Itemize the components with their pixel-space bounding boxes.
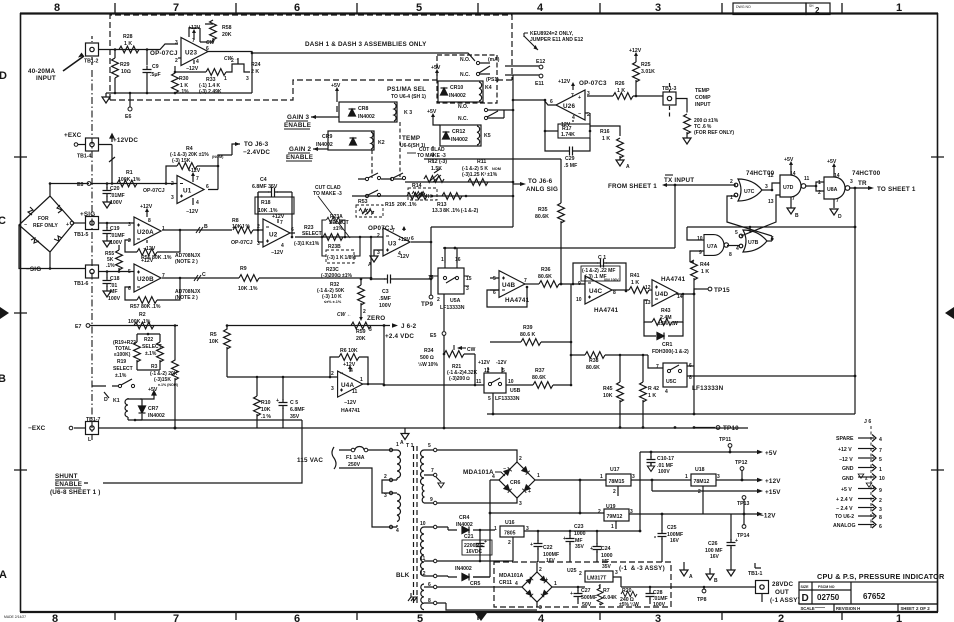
- svg-text:500 Ω: 500 Ω: [420, 355, 434, 361]
- fuse F1: [339, 447, 392, 468]
- svg-text:TP8: TP8: [697, 597, 707, 603]
- svg-text:2: 2: [879, 498, 882, 504]
- TP13: [737, 496, 750, 514]
- svg-text:5: 5: [428, 443, 431, 449]
- svg-text:GND: GND: [842, 476, 854, 482]
- svg-text:7: 7: [280, 220, 283, 226]
- svg-text:10: 10: [420, 521, 426, 527]
- svg-text:TP14: TP14: [737, 533, 750, 539]
- terminal TB1-1: [671, 563, 800, 604]
- svg-text:7: 7: [524, 278, 527, 284]
- U3 feedback loop with C3: [370, 227, 433, 295]
- svg-text:3: 3: [257, 241, 260, 247]
- ground U3 pin3: [368, 250, 383, 268]
- svg-text:TO MAKE -3: TO MAKE -3: [313, 191, 342, 197]
- svg-text:6: 6: [294, 2, 300, 14]
- svg-text:+12 V: +12 V: [838, 447, 852, 453]
- svg-text:SH: SH: [809, 4, 814, 8]
- svg-text:C3: C3: [382, 289, 389, 295]
- svg-text:+: +: [590, 546, 593, 552]
- +5V K4: [431, 65, 441, 81]
- svg-text:U7B: U7B: [748, 240, 759, 246]
- svg-text:+: +: [578, 95, 581, 101]
- ground: [102, 93, 110, 103]
- svg-text:CR10: CR10: [450, 85, 463, 91]
- svg-text:C29: C29: [565, 156, 575, 162]
- transformer T1 primary: [384, 442, 414, 534]
- lower 115VAC wire: [339, 468, 392, 527]
- svg-text:TB1-1: TB1-1: [748, 571, 763, 577]
- resistor R7: [597, 584, 617, 605]
- wire latch bus y227: [687, 227, 855, 240]
- wire U2 out to U3: [290, 233, 383, 237]
- svg-text:U7D: U7D: [783, 185, 794, 191]
- -12V supply U3: [397, 254, 410, 260]
- svg-text:+5V: +5V: [765, 450, 778, 457]
- svg-text:(-3)1 K±1%: (-3)1 K±1%: [294, 241, 320, 247]
- svg-text:1: 1: [611, 524, 614, 530]
- svg-text:79M12: 79M12: [607, 514, 623, 520]
- svg-text:8: 8: [729, 252, 732, 258]
- svg-text:E5: E5: [430, 333, 436, 339]
- +12V supply U3: [398, 226, 411, 243]
- svg-text:11: 11: [420, 556, 426, 562]
- +12V -12V U5B: [478, 360, 507, 366]
- K4 contacts: [460, 57, 500, 83]
- wire TX input: [667, 184, 736, 186]
- svg-text:ZERO: ZERO: [367, 315, 385, 322]
- svg-text:IN4002: IN4002: [449, 93, 466, 99]
- fold marks: [0, 307, 9, 319]
- svg-text:C4: C4: [260, 177, 267, 183]
- svg-text:J 6-2: J 6-2: [401, 323, 417, 330]
- svg-text:8: 8: [54, 2, 60, 14]
- svg-text:3: 3: [369, 327, 372, 333]
- resistor 200 ohm: [676, 99, 734, 139]
- zone numerals top: [54, 2, 902, 14]
- resistor R45: [603, 355, 623, 427]
- svg-text:11: 11: [804, 176, 810, 182]
- svg-text:TP15: TP15: [714, 287, 730, 294]
- svg-text:−: −: [503, 466, 506, 472]
- resistor R25: [633, 58, 655, 96]
- wire U4A input row: [227, 376, 337, 378]
- J6 pin -2.4V: [836, 504, 882, 513]
- svg-text:8: 8: [428, 598, 431, 604]
- svg-text:7: 7: [173, 2, 179, 14]
- svg-text:E12: E12: [536, 59, 545, 65]
- svg-text:OP-07CJ: OP-07CJ: [150, 50, 178, 57]
- svg-text:TP11: TP11: [719, 437, 731, 443]
- svg-text:U4D: U4D: [655, 291, 668, 298]
- svg-text:50V: 50V: [582, 602, 592, 608]
- svg-text:ANLG SIG: ANLG SIG: [526, 186, 558, 193]
- svg-text:DASH 1 & DASH 3 ASSEMBLIES ONL: DASH 1 & DASH 3 ASSEMBLIES ONLY: [305, 41, 427, 48]
- gate U7D: [780, 171, 810, 202]
- svg-text:3: 3: [466, 286, 469, 292]
- svg-text:R5: R5: [210, 332, 217, 338]
- op-amp U4C: [576, 276, 616, 304]
- -12V supply U20A: [143, 240, 156, 252]
- svg-text:2: 2: [363, 309, 366, 315]
- svg-text:CR5: CR5: [470, 581, 480, 587]
- svg-text:3: 3: [879, 507, 882, 513]
- svg-text:C 1: C 1: [598, 255, 606, 261]
- bridge minus drop: [473, 480, 604, 577]
- ground B U7D: [787, 197, 799, 219]
- pot R24: [224, 56, 261, 82]
- label FROM SHEET 1 / TX INPUT: [608, 175, 694, 190]
- svg-text:11: 11: [352, 389, 358, 395]
- terminal TB1-3: [662, 83, 677, 118]
- junction node: [114, 48, 117, 51]
- dashed control lines: [372, 122, 433, 178]
- svg-text:+5V: +5V: [427, 109, 437, 115]
- +12V rail: [716, 478, 781, 485]
- resistor R53 dashed: [356, 199, 383, 217]
- U4B input wires: [490, 278, 499, 290]
- resistor R36: [538, 267, 585, 287]
- svg-text:+: +: [270, 185, 273, 191]
- resistor R23: [294, 225, 343, 247]
- IC U5B switch: [476, 367, 521, 415]
- +12V supply U1: [188, 168, 201, 182]
- svg-text:1 K: 1 K: [602, 136, 610, 142]
- svg-text:IN4002: IN4002: [316, 142, 333, 148]
- wire U7A out to U7B: [727, 245, 739, 247]
- node E7: [75, 324, 178, 330]
- label CUT CLAD TO MAKE -3: [407, 147, 446, 159]
- svg-text:2: 2: [128, 238, 131, 244]
- bridge FOR REF ONLY: [19, 196, 74, 252]
- capacitor C4: [252, 177, 292, 197]
- transformer T1 secondary B: [420, 521, 437, 578]
- svg-text:12: 12: [420, 571, 426, 577]
- svg-text:8: 8: [148, 218, 151, 224]
- bridge lower wires: [19, 225, 50, 269]
- svg-text:9: 9: [879, 488, 882, 494]
- svg-text:N.O.: N.O.: [458, 104, 469, 110]
- terminal TB1-5: [70, 211, 98, 238]
- svg-text:U20B: U20B: [137, 276, 154, 283]
- svg-text:K 3: K 3: [404, 110, 412, 116]
- label TEMP U6-6: [400, 135, 426, 149]
- relay K5: [440, 125, 491, 146]
- svg-text:E7: E7: [75, 324, 81, 330]
- ground A tap on bus: [400, 428, 409, 447]
- svg-text:TEMP: TEMP: [402, 135, 420, 142]
- svg-text:1: 1: [162, 226, 165, 232]
- label MDA101A CR11: [499, 573, 523, 586]
- svg-text:SHEET: SHEET: [901, 606, 915, 611]
- svg-text:R18: R18: [261, 200, 271, 206]
- svg-text:E11: E11: [535, 81, 544, 87]
- gate U7C: [730, 173, 774, 205]
- -12V supply U4A: [341, 400, 360, 414]
- op-amp U26 (left pointing): [550, 90, 590, 121]
- wire U5C pin7: [648, 355, 663, 368]
- svg-text:MF: MF: [110, 289, 118, 295]
- svg-text:D: D: [802, 593, 809, 604]
- +5V U7D: [784, 157, 794, 175]
- svg-text:.1%: .1%: [106, 263, 115, 269]
- svg-text:100V: 100V: [110, 240, 123, 246]
- transformer T1 secondary C: [421, 582, 437, 610]
- svg-text:6: 6: [294, 613, 300, 622]
- svg-text:R23B: R23B: [328, 244, 341, 250]
- gate U8A: [818, 173, 853, 204]
- svg-text:+5V: +5V: [431, 65, 441, 71]
- label cut clad 2: [313, 185, 350, 238]
- svg-text:TP13: TP13: [737, 501, 750, 507]
- ground bus of U23 stage: [106, 92, 252, 94]
- wire LM317 out: [573, 577, 671, 587]
- svg-text:3: 3: [717, 474, 720, 480]
- svg-text:R53: R53: [358, 199, 368, 205]
- diode CR5: [437, 566, 490, 587]
- capacitor C5: [276, 377, 305, 428]
- svg-text:+12V: +12V: [629, 48, 642, 54]
- relay K4: [438, 81, 492, 102]
- svg-text:C18: C18: [110, 276, 120, 282]
- TO J6-6 arrow: [513, 178, 558, 193]
- svg-text:.1 %: .1 %: [261, 414, 271, 420]
- svg-text:4: 4: [396, 528, 399, 534]
- svg-text:(-3) 15K: (-3) 15K: [172, 158, 191, 164]
- svg-text:CW: CW: [467, 347, 476, 353]
- svg-text:C 5: C 5: [290, 400, 298, 406]
- svg-text:+12V: +12V: [141, 258, 154, 264]
- svg-text:U18: U18: [695, 467, 705, 473]
- svg-text:6: 6: [411, 236, 414, 242]
- svg-text:U2: U2: [269, 232, 278, 239]
- zone numerals bottom: [52, 613, 902, 622]
- resistor R23B dashed: [322, 237, 360, 263]
- svg-text:− 2.4 V: − 2.4 V: [836, 506, 853, 512]
- regulator U25 LM317T: [567, 568, 618, 591]
- svg-text:ENABLE: ENABLE: [284, 122, 311, 129]
- svg-text:FDH300(-1 &-2): FDH300(-1 &-2): [652, 349, 689, 355]
- svg-text:.5μF: .5μF: [150, 72, 161, 78]
- svg-text:6: 6: [879, 524, 882, 530]
- svg-text:7: 7: [656, 364, 659, 370]
- svg-text:D: D: [0, 70, 7, 82]
- resistor R30: [172, 66, 190, 95]
- svg-text:1: 1: [494, 526, 497, 532]
- svg-text:1 K: 1 K: [617, 88, 625, 94]
- svg-text:−12 V: −12 V: [839, 457, 853, 463]
- relay K3: [333, 102, 412, 122]
- terminal TB1-2: [84, 36, 99, 65]
- resistor R20: [619, 588, 639, 608]
- svg-text:7: 7: [571, 93, 574, 99]
- svg-text:≤100K): ≤100K): [114, 352, 131, 358]
- resistor R8: [232, 218, 253, 233]
- svg-text:(-3) 2.49K: (-3) 2.49K: [199, 89, 222, 95]
- svg-text:8: 8: [52, 613, 58, 622]
- svg-text:B: B: [714, 578, 718, 584]
- svg-text:3: 3: [615, 570, 618, 576]
- svg-text:1: 1: [896, 2, 902, 14]
- resistor R1: [117, 170, 141, 187]
- svg-text:R26: R26: [615, 81, 625, 87]
- capacitor C10-17: [647, 452, 675, 475]
- svg-text:TB1-6: TB1-6: [74, 281, 89, 287]
- resistor R19: [113, 334, 140, 379]
- wire -SIG: [99, 271, 135, 273]
- TP12: [735, 460, 748, 480]
- -12V rail: [629, 512, 776, 520]
- svg-text:3: 3: [377, 250, 380, 256]
- svg-text:CR11: CR11: [499, 580, 512, 586]
- svg-text:3: 3: [655, 613, 661, 622]
- dashed K4 enclosure: [437, 55, 497, 103]
- common rail tap11: [437, 560, 513, 562]
- resistor R32: [317, 279, 364, 305]
- TP8: [697, 586, 707, 603]
- svg-text:CR7: CR7: [148, 406, 158, 412]
- svg-text:TP10: TP10: [723, 425, 739, 432]
- svg-text:C: C: [202, 272, 206, 278]
- svg-text:CR8: CR8: [358, 106, 368, 112]
- svg-text:TB1-5: TB1-5: [74, 232, 89, 238]
- svg-text:13: 13: [768, 199, 774, 205]
- svg-text:12: 12: [645, 285, 651, 291]
- svg-text:16V: 16V: [710, 554, 720, 560]
- svg-text:K1: K1: [113, 398, 120, 404]
- svg-text:4: 4: [538, 613, 545, 622]
- chassis ground T1: [408, 593, 418, 601]
- op-amp U3: [377, 228, 414, 257]
- svg-text:4: 4: [537, 2, 544, 14]
- svg-text:JUMPER E11 AND E12: JUMPER E11 AND E12: [530, 37, 583, 43]
- svg-text:115 VAC: 115 VAC: [297, 457, 323, 464]
- svg-text:+: +: [276, 398, 279, 404]
- svg-text:1: 1: [879, 467, 882, 473]
- J6 pin +5V: [841, 485, 882, 494]
- wire U17 out: [631, 479, 691, 481]
- svg-text:(U6-8 SHEET 1 ): (U6-8 SHEET 1 ): [50, 489, 101, 496]
- svg-text:15: 15: [466, 276, 472, 282]
- svg-text:1: 1: [441, 257, 444, 263]
- svg-text:NOM: NOM: [492, 167, 501, 171]
- +5V to K1: [140, 387, 158, 399]
- svg-text:16V: 16V: [670, 538, 680, 544]
- svg-text:250V: 250V: [348, 462, 361, 468]
- svg-text:R16: R16: [600, 129, 610, 135]
- svg-text:+: +: [545, 577, 548, 583]
- svg-text:9: 9: [430, 497, 433, 503]
- switch G2: [358, 173, 381, 181]
- svg-text:C22: C22: [543, 545, 553, 551]
- svg-text:U20A: U20A: [137, 229, 154, 236]
- capacitor C25: [654, 514, 683, 562]
- +12V R25: [629, 48, 642, 58]
- label PS1/MA SEL: [387, 86, 426, 100]
- op-amp U4B: [493, 271, 527, 298]
- svg-text:IN4002: IN4002: [455, 566, 472, 572]
- svg-text:+: +: [66, 222, 69, 228]
- svg-text:U1: U1: [183, 188, 192, 195]
- svg-text:2: 2: [698, 489, 701, 495]
- svg-text:−12V: −12V: [271, 250, 284, 256]
- svg-text:+: +: [563, 536, 566, 542]
- svg-text:4: 4: [492, 474, 495, 480]
- svg-text:U5A: U5A: [450, 298, 461, 304]
- svg-text:R29: R29: [120, 62, 130, 68]
- svg-text:67652: 67652: [863, 592, 886, 601]
- svg-text:10: 10: [697, 236, 703, 242]
- label 40-20MA INPUT: [28, 53, 84, 83]
- svg-text:CR6: CR6: [510, 480, 520, 486]
- svg-text:20K .1%: 20K .1%: [397, 202, 417, 208]
- svg-text:−EXC: −EXC: [28, 425, 46, 432]
- wire tap8: [437, 603, 537, 610]
- svg-text:R25: R25: [641, 62, 651, 68]
- svg-text:35V: 35V: [575, 544, 585, 550]
- svg-text:16VDC: 16VDC: [466, 549, 483, 555]
- svg-text:(-1 & -3 ASSY): (-1 & -3 ASSY): [619, 565, 665, 572]
- svg-text:K5: K5: [484, 133, 491, 139]
- svg-text:C20: C20: [110, 186, 120, 192]
- svg-text:1: 1: [224, 76, 227, 82]
- wire U7A pin9 to R44: [690, 251, 704, 262]
- svg-text:R43: R43: [661, 308, 671, 314]
- capacitor C24: [590, 531, 613, 570]
- svg-text:B: B: [795, 213, 799, 219]
- bridge CR11 wires: [437, 561, 573, 607]
- svg-text:±5% ¼W: ±5% ¼W: [619, 601, 639, 608]
- svg-text:7805: 7805: [504, 531, 516, 537]
- svg-text:2: 2: [613, 489, 616, 495]
- svg-text:D: D: [104, 397, 108, 403]
- resistor R2: [128, 312, 154, 329]
- wire U5C pin8 to x855: [687, 375, 855, 377]
- svg-text:REF ONLY: REF ONLY: [33, 223, 58, 229]
- svg-text:−12V: −12V: [397, 254, 410, 260]
- svg-text:6.8MF: 6.8MF: [290, 407, 305, 413]
- svg-text:4: 4: [196, 200, 199, 206]
- capacitor C23: [563, 524, 586, 562]
- svg-text:2: 2: [437, 297, 440, 303]
- pot R58: [189, 20, 232, 46]
- svg-text:GAIN 3: GAIN 3: [287, 114, 309, 121]
- +15V rail: [652, 480, 781, 496]
- svg-text:E6: E6: [125, 114, 131, 120]
- svg-text:(FOR REF ONLY): (FOR REF ONLY): [694, 130, 734, 136]
- pot R34: [418, 345, 476, 368]
- svg-text:OP-07CJ: OP-07CJ: [231, 240, 253, 246]
- svg-text:TO U6-4 (SH 1): TO U6-4 (SH 1): [391, 94, 426, 100]
- svg-text:FOR: FOR: [38, 216, 49, 222]
- svg-text:R58: R58: [222, 25, 232, 31]
- op-amp U2: [257, 219, 294, 249]
- svg-text:2: 2: [598, 509, 601, 515]
- svg-text:DWG NO: DWG NO: [736, 5, 751, 9]
- diode CR4: [437, 515, 495, 534]
- op-amp U20B: [128, 264, 165, 292]
- cross coupling wires: [727, 195, 780, 241]
- svg-text:1: 1: [685, 474, 688, 480]
- svg-text:U17: U17: [610, 467, 620, 473]
- svg-text:5: 5: [488, 396, 491, 402]
- svg-text:100V: 100V: [108, 296, 121, 302]
- wire shunt enable: [84, 420, 302, 483]
- svg-text:78M15: 78M15: [609, 479, 625, 485]
- resistor R18 boxed: [255, 192, 294, 237]
- svg-text:5: 5: [416, 2, 422, 14]
- svg-text:OP-07C3: OP-07C3: [579, 80, 607, 87]
